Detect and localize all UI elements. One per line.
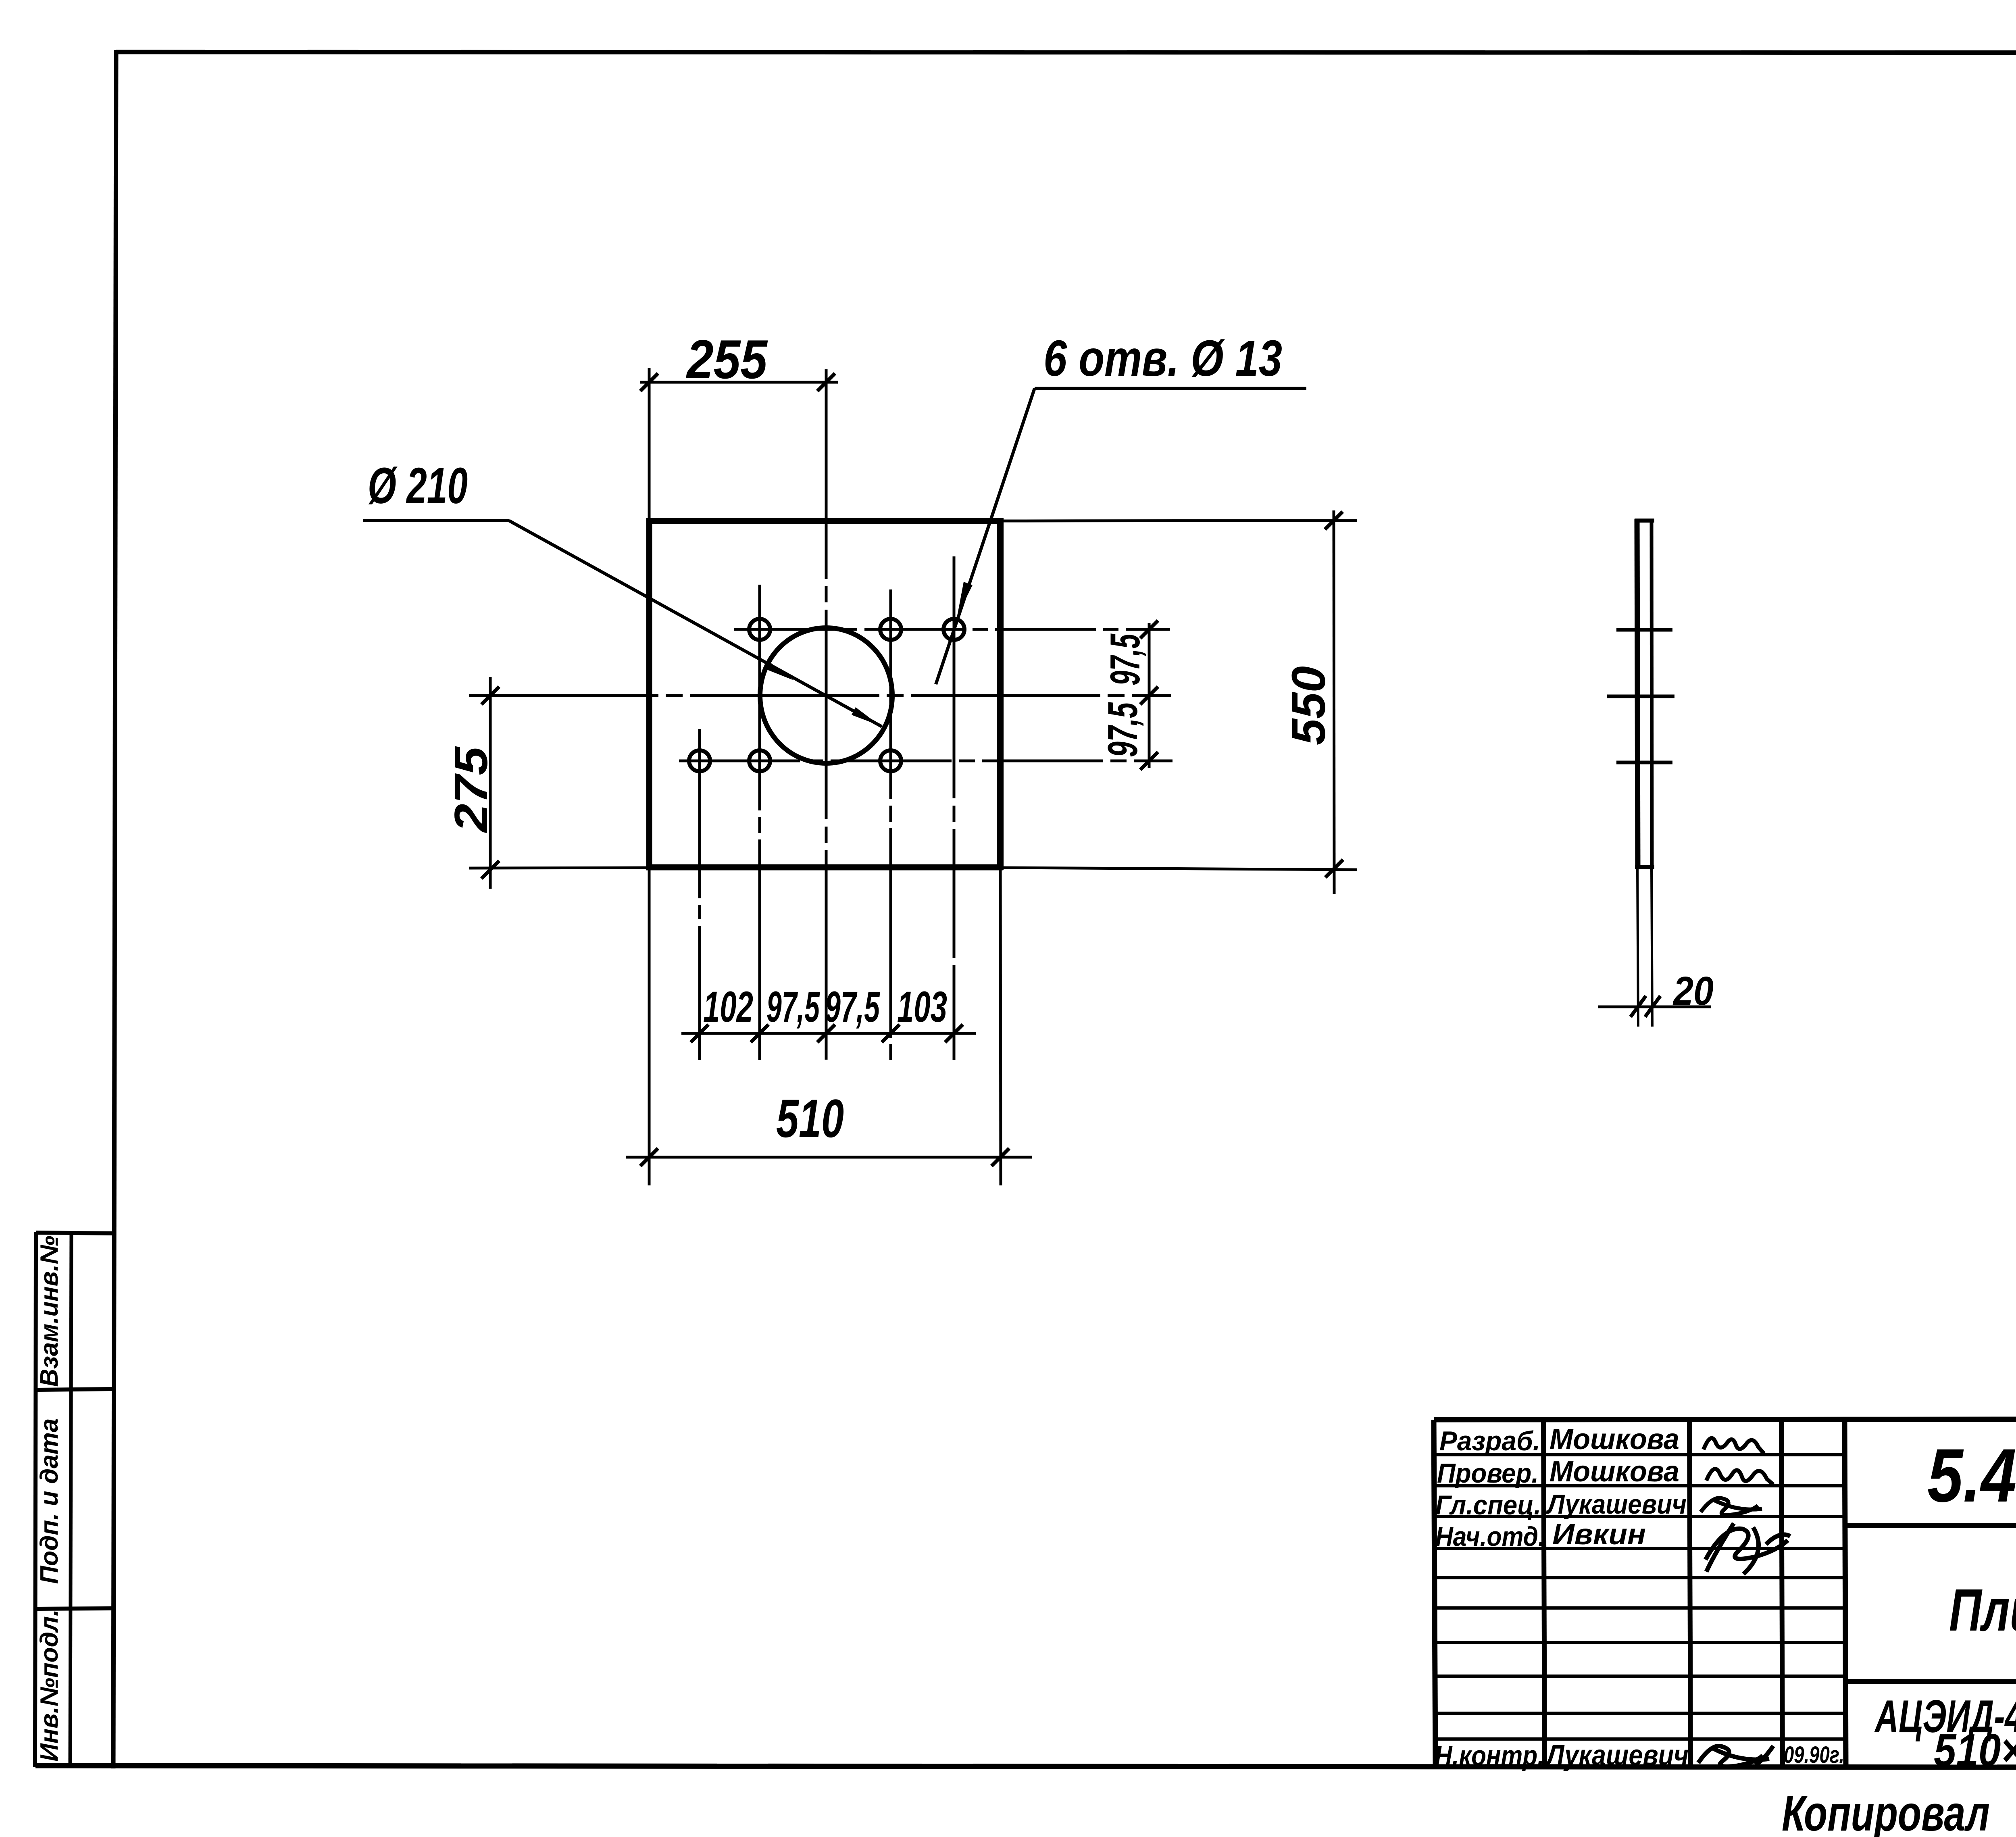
plate outline right edge [997,518,1004,870]
staff table column line 1 [1543,1420,1545,1768]
side view center tick top [1616,628,1672,632]
dim 550 dimension line [1334,510,1334,894]
svg-text:Плита П3: Плита П3 [1949,1577,2016,1643]
dim 510 extension right [1000,870,1001,1185]
svg-text:Ø 210: Ø 210 [368,457,468,514]
svg-text:Мошкова: Мошкова [1549,1423,1679,1456]
leader F210 arrowhead 2 [852,707,880,726]
svg-text:103: 103 [897,982,947,1031]
bottom dims tick 5 [945,1025,963,1042]
bottom hole row center line [679,760,1173,762]
dim 20 dimension line [1598,1006,1711,1008]
dim 97,5 tick top [1140,621,1158,638]
dim 255 tick right [817,373,835,391]
title block top edge [1434,1419,2016,1420]
leader F210 diagonal line [509,521,882,727]
plate outline top edge [646,518,1003,524]
hole column line x2209 [889,589,892,1060]
staff row line 3 [1434,1515,1845,1518]
hole column line x1884 [758,585,761,1060]
hole B3 bottom-right [880,750,901,771]
svg-text:255: 255 [685,329,768,390]
svg-text:Н.контр.: Н.контр. [1435,1740,1544,1771]
dim 20 tick left [1631,996,1646,1017]
title block left edge [1434,1420,1435,1768]
svg-text:97,5: 97,5 [1100,702,1146,757]
staff row line 4 [1434,1547,1845,1550]
dim 255 extension line left [648,368,651,518]
top hole row center line [734,628,1170,631]
svg-text:09.90г.: 09.90г. [1784,1742,1844,1768]
svg-text:510: 510 [776,1089,844,1149]
svg-text:Разраб.: Разраб. [1439,1426,1540,1456]
hole column line x1735 [698,729,701,1060]
leader 6 holes diagonal line [936,388,1035,684]
hole B2 bottom-middle [749,750,770,771]
hole B1 bottom-left [689,750,710,771]
svg-text:Лукашевич: Лукашевич [1545,1739,1689,1772]
staff row line 5 [1435,1576,1845,1579]
dim 510 tick right [991,1148,1009,1166]
plate outline bottom edge [646,864,1003,871]
staff row line 7 [1435,1641,1845,1644]
staff row line 9 [1435,1712,1845,1715]
svg-text:Нач.отд.: Нач.отд. [1435,1521,1545,1552]
svg-text:Мошкова: Мошкова [1549,1456,1679,1488]
frame top line [116,52,2016,53]
side view right edge [1652,519,1652,868]
svg-text:275: 275 [445,746,497,833]
staff row line 6 [1435,1606,1845,1610]
staff table right edge [1845,1420,1846,1768]
vertical center line of plate [825,369,828,1060]
frame left line [113,50,116,1768]
plate bottom extension to left [469,868,649,868]
hole T3 top-right [943,619,964,640]
side view center tick bottom [1616,761,1672,764]
hole T2 top-middle [880,619,901,640]
svg-text:Подп. и дата: Подп. и дата [35,1418,63,1584]
svg-text:Инв.№подл.: Инв.№подл. [35,1609,63,1762]
name cell divider (Plita / material) [1845,1681,2016,1682]
dim 550 extension top [1003,521,1357,521]
side view left edge [1637,519,1638,868]
staff table column line 2 [1689,1420,1691,1768]
dim 550 bottom tick [1325,860,1343,877]
dim 275 bottom tick [481,861,499,879]
dim 255 dimension line [640,381,838,384]
dim 550 top tick [1325,512,1343,529]
svg-text:6 отв. Ø 13: 6 отв. Ø 13 [1043,330,1282,387]
dim 550 extension bottom [1003,868,1357,870]
svg-text:510×550×20: 510×550×20 [1934,1725,2016,1776]
side view top cap [1635,519,1654,523]
left strip outer left edge [35,1232,36,1767]
horizontal center line of plate [469,694,1171,697]
staff row line 2 [1434,1484,1845,1487]
bottom dims tick 3 [817,1025,835,1042]
side view bottom cap [1635,865,1654,869]
frame bottom line [35,1766,2016,1768]
dim 510 dimension line [626,1156,1032,1159]
leader F210 horizontal segment [363,519,509,522]
dim 275 top extension (center line reaches) tick [481,687,499,704]
bottom dims tick 1 [691,1025,708,1042]
doc number divider under 5.407 cell [1845,1523,2016,1528]
signature Lukashevich 1 [1701,1498,1762,1515]
hole T1 top-left [749,619,770,640]
left strip cell divider 1 [35,1389,113,1390]
staff row line 8 [1435,1675,1845,1678]
signature Ivkin flourish [1706,1523,1790,1574]
svg-text:550: 550 [1282,666,1335,745]
bottom dims tick 2 [751,1025,768,1042]
dim 97,5 upper extension [1000,629,1170,630]
signature Moshkova 1 [1704,1438,1764,1454]
svg-text:97,5: 97,5 [825,982,880,1031]
dim 20 extension right [1652,868,1652,1027]
side view center tick middle [1607,695,1674,698]
leader 6 holes horizontal segment [1035,387,1306,390]
dim 510 tick left [640,1148,658,1166]
svg-text:102: 102 [703,982,753,1031]
hole column line x2366 [953,556,956,1060]
svg-text:Ивкин: Ивкин [1552,1518,1646,1551]
svg-text:97,5: 97,5 [1102,633,1149,685]
bottom dims dimension line [681,1032,976,1035]
dim 275 dimension line [489,677,492,889]
svg-text:Лукашевич: Лукашевич [1545,1489,1687,1520]
svg-text:Гл.спец.: Гл.спец. [1435,1490,1541,1520]
dim 97,5 tick bottom [1140,752,1158,770]
dim 20 extension left [1637,868,1638,1027]
dim 20 tick right [1645,996,1660,1017]
signature Lukashevich 2 [1698,1746,1773,1766]
dim 97,5 tick middle [1140,687,1158,704]
left strip top edge [36,1233,114,1233]
svg-text:Взам.инв.№: Взам.инв.№ [35,1235,63,1387]
dim 97,5 dimension line vertical [1148,623,1151,768]
svg-text:20: 20 [1672,968,1714,1014]
svg-text:Копировал: Копировал [1782,1786,1990,1837]
plate outline left edge [646,518,652,870]
dim 255 tick left [640,373,658,391]
left strip cell divider 2 [35,1608,113,1609]
left strip column divider [70,1233,71,1767]
staff row line 10 [1435,1737,1846,1741]
bottom dims tick 4 [882,1025,900,1042]
central hole circle F210 [760,628,892,763]
signature Moshkova 2 [1706,1469,1773,1485]
svg-text:Провер.: Провер. [1437,1458,1539,1489]
leader F210 arrowhead 1 [764,661,793,680]
dim 510 extension left [648,870,651,1185]
svg-text:97,5: 97,5 [766,982,820,1031]
staff table column line 3 [1781,1420,1783,1768]
staff row line 1 [1434,1453,1845,1456]
leader 6 holes arrowhead [957,582,973,616]
svg-text:5.407-126.1-28: 5.407-126.1-28 [1927,1433,2016,1518]
